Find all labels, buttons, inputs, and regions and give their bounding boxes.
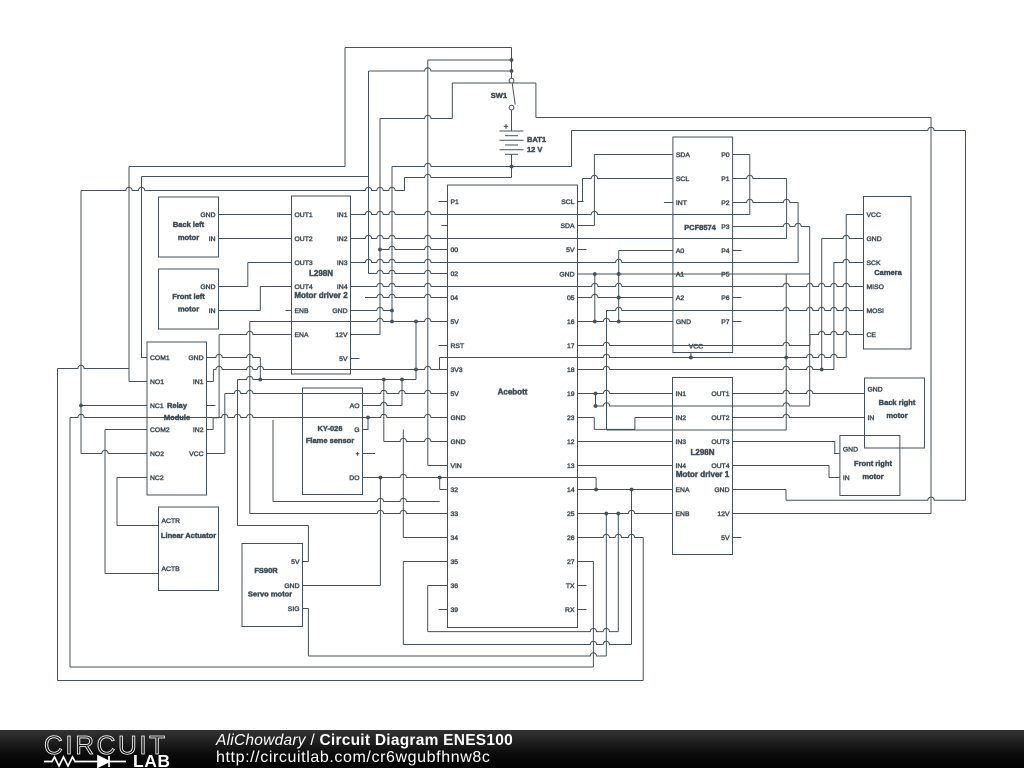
wire VIN connection: [428, 465, 442, 467]
wire V+ jog to NO1 feed: [58, 365, 130, 368]
wire 00 row: [380, 246, 442, 249]
pin IN3 of motor driver 1: [667, 441, 673, 443]
svg-text:GND: GND: [451, 439, 466, 446]
wire 5V/3V3 row y321 left of Acebott: [250, 318, 442, 321]
wire OUT3 drop x247: [247, 263, 249, 287]
wire ENA bracket drop: [212, 418, 214, 430]
svg-text:GND: GND: [676, 319, 691, 326]
svg-text:GND: GND: [200, 212, 215, 219]
wire OUT2 to back right IN: [739, 414, 859, 417]
pin 04 of Acebott (left): [442, 297, 448, 299]
svg-text:ENA: ENA: [295, 332, 309, 339]
svg-text:14: 14: [567, 487, 575, 494]
wire link x594 GND to 16 row: [594, 274, 596, 322]
pin 5V of motor driver 1: [733, 537, 739, 539]
svg-text:Back right: Back right: [879, 398, 916, 407]
wire CE riser x810: [809, 335, 811, 346]
svg-text:FS90R: FS90R: [254, 566, 278, 575]
pin IN2 of relay module: [207, 429, 213, 431]
svg-text:A0: A0: [676, 248, 685, 255]
svg-text:RX: RX: [565, 607, 575, 614]
wire vertical A (V+ to Acebott VIN): [427, 60, 429, 466]
svg-text:BAT1: BAT1: [527, 135, 546, 144]
svg-text:VCC: VCC: [689, 344, 703, 351]
wire FS90R GND riser: [379, 478, 381, 586]
svg-text:12V: 12V: [335, 332, 348, 339]
pin A1 of PCF8574: [667, 273, 673, 275]
svg-text:5V: 5V: [721, 535, 730, 542]
wire rail y631 to ENB riser: [428, 628, 619, 631]
wire net P1/IN2 long row y238: [357, 235, 787, 238]
svg-text:IN4: IN4: [337, 284, 348, 291]
wire 05 row to PCF A2: [584, 294, 667, 297]
svg-text:P3: P3: [721, 224, 730, 231]
relay K1 Relay Module: [147, 342, 207, 495]
svg-text:TX: TX: [566, 583, 575, 590]
pin 12V of motor driver 1: [733, 513, 739, 515]
pin NO2 of relay module: [141, 453, 147, 455]
wire switch top terminal: [511, 48, 513, 79]
pin GND of front right motor: [834, 453, 840, 455]
pin SCK of camera: [858, 262, 864, 264]
svg-text:DO: DO: [349, 475, 359, 482]
svg-text:P7: P7: [721, 319, 730, 326]
pin 16 of Acebott (right): [578, 321, 584, 323]
wire OUT4 jog: [260, 286, 285, 288]
wire to relay COM1: [140, 357, 143, 359]
wire driver2 ENA row left: [219, 331, 285, 334]
wire 32 stub link: [440, 489, 442, 491]
svg-text:AO: AO: [350, 403, 360, 410]
wire GND row y177 left: [405, 174, 512, 177]
pin 05 of Acebott (right): [578, 297, 584, 299]
svg-text:32: 32: [451, 487, 459, 494]
svg-text:26: 26: [567, 535, 575, 542]
wire P3 drop x809: [809, 227, 811, 407]
svg-text:GND: GND: [284, 583, 299, 590]
svg-text:5V: 5V: [451, 319, 460, 326]
svg-text:Relay: Relay: [167, 401, 188, 410]
pin NO1 of relay module: [141, 381, 147, 383]
CircuitLab logo: [0, 730, 200, 768]
pin GND of front left motor: [219, 286, 225, 288]
pin OUT1 of motor driver 2: [286, 214, 292, 216]
wire 34 riser x403: [402, 430, 404, 538]
svg-text:IN3: IN3: [337, 260, 348, 267]
wire GND jog x404: [404, 178, 406, 191]
pin VCC of relay module: [207, 453, 213, 455]
svg-text:27: 27: [567, 559, 575, 566]
svg-text:IN: IN: [209, 308, 216, 315]
svg-text:5V: 5V: [451, 391, 460, 398]
pin P1 of Acebott (left): [442, 201, 448, 203]
wire camera GND row: [822, 235, 858, 238]
svg-text:GND: GND: [843, 446, 858, 453]
svg-text:SDA: SDA: [561, 223, 575, 230]
svg-text:P1: P1: [451, 199, 460, 206]
pin COM2 of relay module: [141, 429, 147, 431]
pin P0 of PCF8574: [733, 154, 739, 156]
wire GND x571 up: [571, 131, 573, 167]
wire 36 jog row: [428, 585, 442, 587]
actuator A1 Linear Actuator: [159, 507, 219, 591]
pin 34 of Acebott (left): [442, 537, 448, 539]
wire KY DO row long to 14 net: [369, 474, 597, 477]
svg-text:NC2: NC2: [150, 475, 164, 482]
wire 35 row: [403, 561, 441, 563]
pin G of flame sensor: [363, 429, 369, 431]
pin VIN of Acebott (left): [442, 465, 448, 467]
svg-text:13: 13: [567, 463, 575, 470]
wire V+ switch branch y83 left: [452, 82, 511, 84]
svg-text:GND: GND: [867, 236, 882, 243]
wire 23 detour bottom: [594, 428, 635, 430]
wire camera CE row: [810, 331, 858, 334]
wire NC2 to ACTR chain: [117, 477, 141, 479]
wire ENB drop to relay IN1: [212, 370, 214, 382]
svg-text:OUT2: OUT2: [711, 415, 729, 422]
svg-text:NC1: NC1: [150, 403, 164, 410]
pin MOSI of camera: [858, 310, 864, 312]
svg-text:GND: GND: [868, 386, 883, 393]
pin GND of back right motor: [859, 393, 865, 395]
svg-text:KY-026: KY-026: [317, 424, 342, 433]
wire SDA link: [584, 225, 595, 227]
wire net P3/A1/AcebottGND row y274 through PCF: [584, 273, 810, 275]
wire GND drop x392 from battery row: [391, 167, 393, 322]
pin 5V of Acebott (left): [442, 393, 448, 395]
servo M5 FS90R Servo motor: [242, 544, 303, 627]
wire 23 detour up: [634, 418, 636, 430]
wire A-strap vertical x618: [618, 251, 620, 322]
wire 02 row: [369, 270, 442, 273]
svg-text:motor: motor: [178, 233, 199, 242]
IC U3 PCF8574 IO expander: [673, 137, 733, 353]
wire to relay IN2: [207, 429, 213, 431]
wire 32 jog drop: [439, 478, 441, 490]
pin 32 of Acebott (left): [442, 489, 448, 491]
svg-text:Linear Actuator: Linear Actuator: [161, 531, 216, 540]
svg-text:Flame sensor: Flame sensor: [306, 436, 354, 445]
wire V+ top rail to left column: [345, 47, 512, 49]
wire relay GND row: [213, 354, 261, 357]
svg-text:OUT3: OUT3: [711, 439, 729, 446]
pin NC1 of relay module: [141, 405, 147, 407]
svg-text:motor: motor: [886, 411, 907, 420]
wire GND bottom right y500: [786, 497, 966, 500]
wire OUT4 row: [739, 465, 830, 467]
pin ACTR of linear actuator: [153, 525, 159, 527]
wire MOSI drop x606 down: [606, 311, 608, 431]
wire ACTB drop x105: [104, 430, 106, 574]
svg-text:OUT4: OUT4: [711, 463, 729, 470]
pin SCL of PCF8574: [667, 178, 673, 180]
wire KY AO row: [369, 402, 403, 405]
wire GND row y190 to far left: [81, 187, 405, 190]
pin OUT1 of motor driver 1: [733, 393, 739, 395]
pin IN3 of motor driver 2: [351, 262, 357, 264]
pin 12 of Acebott (right): [578, 441, 584, 443]
pin GND of relay module: [207, 357, 213, 359]
svg-text:ENB: ENB: [676, 511, 690, 518]
wire x416 5V link: [415, 322, 417, 380]
pin 27 of Acebott (right): [578, 561, 584, 563]
wire OUT1 to back right GND: [739, 390, 859, 393]
wire SDA chain riser: [593, 155, 595, 226]
wire KY plus stub: [369, 453, 376, 455]
svg-text:SCK: SCK: [867, 260, 881, 267]
wire ENB chain riser x606: [605, 514, 607, 657]
pin SDA of PCF8574: [667, 154, 673, 156]
wire SCL chain riser: [582, 179, 584, 202]
svg-text:IN2: IN2: [676, 415, 687, 422]
wire V+ across y166 to far-left column: [129, 166, 345, 168]
svg-text:04: 04: [451, 295, 459, 302]
IC U6 L298N Motor driver 1: [673, 378, 733, 555]
pin VCC of camera: [858, 214, 864, 216]
pin 5V of Acebott (left): [442, 321, 448, 323]
wire x249 column (5V net to 33 row): [249, 322, 251, 514]
wire 12 row to driver1 IN3: [584, 441, 667, 443]
wire GND bottom rail y666: [70, 666, 593, 668]
pin 26 of Acebott (right): [578, 537, 584, 539]
svg-text:P6: P6: [721, 295, 730, 302]
svg-text:GND: GND: [200, 284, 215, 291]
pin GND of camera: [858, 238, 864, 240]
pin IN of front left motor: [219, 310, 225, 312]
pin IN4 of motor driver 1: [667, 465, 673, 467]
wire Acebott GND2 row: [384, 438, 442, 441]
svg-text:00: 00: [451, 247, 459, 254]
wire SCL link: [583, 201, 584, 203]
pin SDA of Acebott (right): [578, 225, 584, 227]
pin IN1 of motor driver 1: [667, 393, 673, 395]
wire ENA bracket top: [213, 417, 219, 419]
motor M1 Back left motor: [159, 197, 219, 257]
wire GND rail left column x70 down: [69, 418, 71, 668]
wire servo SIG drop: [307, 609, 309, 657]
wire rail y644 to ENA riser: [403, 641, 631, 644]
pin SCL of Acebott (right): [578, 201, 584, 203]
svg-text:IN: IN: [209, 236, 216, 243]
pin COM1 of relay module: [141, 357, 147, 359]
wire GND jog up to driver1 GND: [785, 490, 787, 501]
svg-text:3V3: 3V3: [451, 367, 463, 374]
wire PCF P2 row: [739, 199, 799, 202]
pin SIG of servo motor: [303, 608, 309, 610]
svg-text:Motor driver 2: Motor driver 2: [294, 291, 348, 300]
wire camera SCK row: [834, 259, 858, 262]
IC U2 L298N Motor driver 2: [292, 196, 351, 374]
pin IN2 of motor driver 1: [667, 417, 673, 419]
pin 19 of Acebott (right): [578, 393, 584, 395]
svg-text:IN3: IN3: [676, 439, 687, 446]
svg-text:GND: GND: [188, 355, 203, 362]
svg-text:PCF8574: PCF8574: [684, 223, 717, 232]
pin IN of back right motor: [859, 417, 865, 419]
svg-text:LAB: LAB: [133, 751, 170, 768]
motor M2 Front left motor: [159, 269, 219, 329]
wire PCF VCC stub to rail: [690, 358, 692, 359]
svg-text:5V: 5V: [291, 559, 300, 566]
wire rail y655 SIG to ENB chain: [308, 653, 606, 656]
svg-text:+: +: [356, 451, 360, 458]
wire to ACTB: [105, 573, 153, 575]
pin 35 of Acebott (left): [442, 561, 448, 563]
wire V+ far-left column x129 down to relay NO1 jog: [128, 167, 130, 382]
svg-text:35: 35: [451, 559, 459, 566]
wire 14 row to driver1 ENA: [584, 489, 667, 491]
wire V+ across y176: [142, 176, 369, 178]
pin IN of front right motor: [834, 477, 840, 479]
wire 3V3 hook riser: [439, 358, 441, 370]
pin ENB of motor driver 1: [667, 513, 673, 515]
pin IN1 of relay module: [207, 381, 213, 383]
svg-text:Acebott: Acebott: [498, 388, 528, 397]
svg-text:GND: GND: [451, 415, 466, 422]
motor M3 Back right motor: [865, 378, 925, 448]
pin 36 of Acebott (left): [442, 585, 448, 587]
svg-text:OUT3: OUT3: [295, 260, 313, 267]
wire 32 chain row y501: [273, 498, 440, 501]
svg-text:12 V: 12 V: [527, 145, 542, 154]
svg-text:COM2: COM2: [150, 427, 170, 434]
svg-text:Camera: Camera: [874, 268, 902, 277]
pin GND of Acebott (left): [442, 441, 448, 443]
wire GND to relay NC1: [81, 405, 141, 407]
pin GND of motor driver 1: [733, 489, 739, 491]
wire camera VCC drop to VCC rail: [845, 215, 847, 358]
svg-text:SIG: SIG: [288, 606, 300, 613]
pin IN4 of motor driver 2: [351, 286, 357, 288]
wire PCF P3 row: [739, 223, 810, 226]
wire PCF P1 row: [739, 175, 787, 178]
pin VCC of PCF8574 (bottom): [690, 353, 692, 359]
wire relay VCC row: [213, 453, 225, 455]
pin OUT4 of motor driver 2: [286, 286, 292, 288]
wire camera SCK riser x833: [833, 263, 835, 370]
wire 3V3 row long to relay IN1 bracket: [213, 366, 441, 369]
wire 33 row: [250, 510, 442, 513]
wire battery minus stub: [511, 154, 513, 166]
wire A-strap ext drop x786 down: [785, 274, 787, 430]
svg-text:OUT2: OUT2: [295, 236, 313, 243]
wire x273 drop to 32 chain: [272, 420, 274, 502]
pin 5V of Acebott (right): [578, 249, 584, 251]
wire 23 row continue to IN2: [635, 417, 667, 419]
svg-text:COM1: COM1: [150, 355, 170, 362]
svg-text:NO2: NO2: [150, 451, 164, 458]
wire V+ across y118 to x380: [380, 115, 452, 118]
svg-text:motor: motor: [862, 472, 883, 481]
wire PCF A0 row: [619, 250, 667, 252]
svg-text:12V: 12V: [717, 511, 730, 518]
wire 27 riser x593 to GND rail: [592, 562, 594, 668]
wire V+ drop x452: [451, 83, 453, 119]
wire KY G hook: [367, 418, 369, 430]
wire x237 drop to servo 5V row: [237, 380, 239, 526]
svg-text:ENA: ENA: [676, 487, 690, 494]
svg-text:12: 12: [567, 439, 575, 446]
pin OUT2 of motor driver 1: [733, 417, 739, 419]
pin P6 of PCF8574: [733, 297, 739, 299]
pin OUT3 of motor driver 2: [286, 262, 292, 264]
wire V+ left drop x345: [344, 48, 346, 167]
svg-text:+: +: [504, 122, 509, 131]
pin 39 of Acebott (left): [442, 609, 448, 611]
pin ENB of motor driver 2: [286, 310, 292, 312]
svg-text:39: 39: [451, 607, 459, 614]
wire driver2 12V row: [357, 334, 381, 336]
wire V+ jog to relay NO1: [129, 381, 141, 383]
switch SW1: [509, 78, 514, 83]
pin 14 of Acebott (right): [578, 489, 584, 491]
svg-text:L298N: L298N: [309, 269, 333, 278]
pin 33 of Acebott (left): [442, 513, 448, 515]
wire servo SIG hook: [303, 608, 309, 610]
wire Acebott GND row y417 mega: [70, 414, 442, 417]
wire 27 row: [584, 561, 594, 563]
wire VCC rail y357 across: [440, 354, 847, 357]
pin NC2 of relay module: [141, 477, 147, 479]
pin NC of Acebott (left): [442, 225, 448, 227]
svg-text:ENB: ENB: [295, 308, 309, 315]
svg-text:MOSI: MOSI: [867, 308, 884, 315]
svg-text:GND: GND: [559, 271, 574, 278]
svg-text:IN1: IN1: [676, 391, 687, 398]
wire 23 detour drop: [593, 418, 595, 430]
wire camera GND riser x821: [821, 239, 823, 370]
wire to front right IN: [829, 477, 834, 479]
svg-text:P0: P0: [721, 152, 730, 159]
svg-text:SDA: SDA: [676, 152, 690, 159]
svg-text:23: 23: [567, 415, 575, 422]
pin P3 of PCF8574: [733, 226, 739, 228]
wire COM2 to ACTB chain: [105, 429, 141, 431]
svg-text:CE: CE: [867, 332, 877, 339]
wire camera VCC row: [846, 214, 857, 216]
wire V+ left column x57 down: [57, 369, 59, 681]
wire ENB riser x618: [617, 514, 619, 632]
svg-text:GND: GND: [714, 487, 729, 494]
svg-text:Front right: Front right: [854, 459, 892, 468]
wire ENA riser x631: [631, 490, 633, 645]
wire P2 drop x798: [797, 203, 799, 263]
pin DO of flame sensor: [363, 477, 369, 479]
resistor and diode symbol of logo: [44, 756, 126, 767]
pin GND of Acebott (right): [578, 273, 584, 275]
pin CE of camera: [858, 334, 864, 336]
wire 26 row: [584, 534, 644, 537]
svg-text:SW1: SW1: [491, 91, 507, 100]
wire AO riser x402: [401, 380, 403, 406]
pin P5 of PCF8574: [733, 273, 739, 275]
svg-text:5V: 5V: [566, 247, 575, 254]
pin 23 of Acebott (right): [578, 417, 584, 419]
motor M4 Front right motor: [840, 436, 900, 496]
wire servo 5V riser: [307, 526, 309, 562]
svg-text:Back left: Back left: [173, 220, 205, 229]
svg-text:IN: IN: [868, 415, 875, 422]
wire 17 row to camera CE chain: [584, 342, 811, 345]
svg-text:OUT1: OUT1: [711, 391, 729, 398]
wire V+ branch y60 to vertical A: [428, 59, 512, 61]
svg-text:05: 05: [567, 295, 575, 302]
svg-text:RST: RST: [451, 343, 465, 350]
wire front left motor IN row: [225, 310, 261, 312]
svg-text:P1: P1: [721, 176, 730, 183]
svg-text:IN4: IN4: [676, 463, 687, 470]
